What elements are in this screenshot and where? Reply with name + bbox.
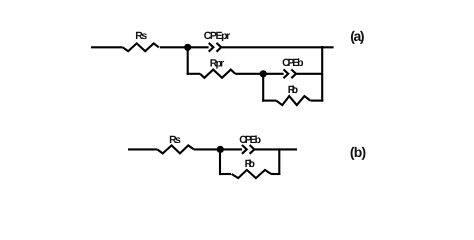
svg-text:(b): (b): [350, 144, 366, 160]
node junction dot 2 (a): [260, 70, 267, 77]
wire node1 to Rpr (a): [187, 73, 200, 75]
svg-text:CPEb: CPEb: [239, 134, 261, 146]
node junction dot 1 (a): [184, 44, 191, 51]
wire (b) left terminal: [128, 148, 157, 150]
svg-text:CPEpr: CPEpr: [204, 30, 231, 42]
CPE CPEpr (a): [209, 43, 222, 52]
CPE CPEb (a): [284, 69, 297, 78]
wire CPEb to right end (b): [254, 148, 297, 150]
wire vertical from node down (b): [219, 149, 221, 175]
resistor Rb (b): [232, 170, 272, 178]
svg-text:Rpr: Rpr: [210, 57, 224, 69]
wire right vertical (b): [278, 148, 280, 175]
wire Rs to CPEpr (a): [160, 46, 209, 48]
CPE CPEb (b): [242, 145, 254, 154]
wire (a) left terminal: [91, 46, 123, 48]
wire Rb to right vertical (a): [311, 100, 324, 102]
wire node 2 to CPEb (a): [263, 73, 283, 75]
svg-text:CPEb: CPEb: [282, 57, 303, 69]
svg-text:Rs: Rs: [169, 134, 181, 146]
wire node2 leg to Rb (a): [262, 100, 276, 102]
svg-text:Rb: Rb: [245, 158, 255, 170]
resistor Rs (a): [123, 43, 159, 51]
node junction dot (b): [217, 146, 224, 153]
wire CPEpr to right end (a): [221, 46, 333, 48]
resistor Rs (b): [157, 145, 194, 153]
svg-text:(a): (a): [350, 28, 364, 44]
wire node leg to Rb (b): [219, 173, 231, 175]
resistor Rpr (a): [200, 70, 235, 78]
svg-text:Rb: Rb: [288, 84, 298, 96]
wire Rs to CPEb (b): [194, 148, 242, 150]
wire Rb to right vertical (b): [271, 173, 280, 175]
wire Rpr to node 2 (a): [235, 73, 263, 75]
wire vertical from node 1 down (a): [187, 47, 189, 75]
wire right vertical (a): [321, 46, 323, 102]
wire CPEb to right vertical (a): [296, 73, 322, 75]
wire vertical node 2 down to Rb branch (a): [262, 74, 264, 102]
resistor Rb (a): [276, 96, 310, 105]
svg-text:Rs: Rs: [135, 30, 147, 42]
